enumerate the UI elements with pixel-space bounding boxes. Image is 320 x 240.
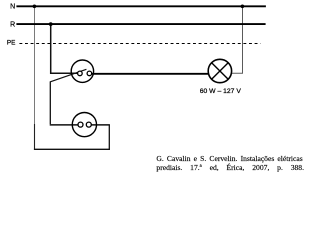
switch S1 lever — [50, 69, 86, 82]
svg-text:R: R — [10, 21, 15, 28]
socket outlet body — [72, 113, 96, 137]
wire PE bus (dashed) — [19, 43, 260, 45]
lamp E1 body — [208, 59, 231, 82]
junction dot on R bus at phase drop — [49, 22, 53, 26]
switch S1 left contact — [78, 71, 83, 76]
socket left contact — [78, 122, 83, 127]
wire phase drop from R bus to switch — [51, 24, 78, 73]
wire from switch lever node down to socket left lead — [49, 81, 51, 124]
wire socket left lead — [50, 124, 78, 126]
switch S1 right contact — [87, 71, 92, 76]
svg-text:60 W – 127 V: 60 W – 127 V — [200, 88, 242, 95]
wire riser to socket right lead — [108, 125, 110, 150]
lamp E1 cross stroke 1 — [212, 63, 229, 80]
switch S1 body — [71, 60, 93, 82]
lamp E1 cross stroke 2 — [212, 63, 229, 80]
socket right contact — [86, 122, 91, 127]
svg-text:PE: PE — [7, 39, 16, 46]
wire switch to lamp — [92, 73, 209, 75]
junction dot on N bus at lamp return — [241, 5, 245, 9]
wire R bus — [16, 23, 265, 25]
wire neutral drop lower part — [34, 124, 36, 149]
wire bottom rail — [34, 148, 110, 150]
svg-text:prediais. 17.ª ed, Érica, 2007: prediais. 17.ª ed, Érica, 2007, p. 388. — [156, 162, 304, 172]
wire socket right lead — [91, 124, 110, 126]
junction dot on N bus at neutral drop — [33, 5, 37, 9]
svg-text:G. Cavalin e S. Cervelin. Inst: G. Cavalin e S. Cervelin. Instalações el… — [156, 154, 302, 163]
svg-text:N: N — [10, 4, 15, 11]
wire neutral drop from N bus to bottom rail — [34, 6, 36, 124]
wire lamp return to N bus — [231, 6, 242, 73]
wire N bus — [16, 5, 266, 7]
